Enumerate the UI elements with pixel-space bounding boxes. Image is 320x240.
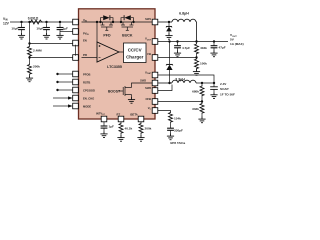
bottom pin boxes <box>101 116 144 122</box>
wire: CPGOOD stub <box>58 89 73 91</box>
svg-text:MODE: MODE <box>83 104 91 108</box>
svg-text:Charger: Charger <box>126 54 144 59</box>
svg-text:200k: 200k <box>33 64 40 68</box>
svg-text:1F TO 50F: 1F TO 50F <box>220 93 235 97</box>
svg-text:6.8µH: 6.8µH <box>179 12 189 16</box>
svg-text:BUCK: BUCK <box>122 34 133 38</box>
resistor R8 154k compensation <box>169 112 173 123</box>
svg-text:CC/CV: CC/CV <box>128 47 142 52</box>
resistor R9 40.2k RT <box>120 121 122 124</box>
wire: divider tap to PFI pin <box>30 57 73 59</box>
node SW1 <box>168 21 170 23</box>
transistor M2 BUCK switch (internal) <box>121 18 134 31</box>
svg-text:2.49M: 2.49M <box>33 49 42 53</box>
wire: PFOB stub <box>58 73 73 75</box>
wire: SW2 to inductor <box>158 82 172 84</box>
wire: SW2B to inductor node <box>158 85 172 91</box>
svg-text:1µF: 1µF <box>63 27 69 31</box>
node PFI tap <box>29 57 31 64</box>
left pin boxes <box>73 19 79 109</box>
wire: VIN to PFI divider <box>29 22 31 46</box>
resistor R5 100k feedback bottom <box>195 58 199 69</box>
wire: internal VIN rail to top switches <box>82 21 153 23</box>
svg-text:40.2k: 40.2k <box>125 127 133 131</box>
wire: SW1 to buck node <box>158 21 172 23</box>
svg-text:EN: EN <box>83 39 87 43</box>
wire: PFI pin to error amp input <box>82 57 98 59</box>
svg-text:154k: 154k <box>174 117 181 121</box>
svg-text:10µF: 10µF <box>36 27 43 31</box>
capacitor C5 47uF <box>211 42 218 52</box>
node: M1 source tap <box>112 21 114 23</box>
svg-text:SW2: SW2 <box>145 86 151 90</box>
wire: divider top to EN pin <box>30 43 73 45</box>
resistor R10 200k ISETA <box>140 121 142 124</box>
svg-text:47µF: 47µF <box>219 46 226 50</box>
wire: VIN input rail <box>10 21 73 23</box>
wire: VIN pin to error amp input <box>96 22 98 42</box>
wire: CFB pin to cap divider <box>158 101 202 103</box>
right pin boxes <box>152 19 158 113</box>
capacitor C4 4.7uF <box>174 42 181 52</box>
wire: VOUT rail <box>158 41 228 43</box>
wire: RSTB stub <box>58 81 73 83</box>
svg-text:200k: 200k <box>145 127 152 131</box>
wire: L2 to supercap rail <box>196 82 214 84</box>
transistor M3 boost switch (internal) <box>119 83 153 97</box>
ground (supercap) <box>210 92 217 98</box>
ground (catch diode) <box>165 33 172 39</box>
bottom pin labels inside IC <box>96 112 138 117</box>
node divider top <box>28 42 30 44</box>
svg-text:FB: FB <box>147 52 151 56</box>
capacitor C3 1uF <box>57 23 64 33</box>
capacitor C7 330pF compensation <box>170 123 172 125</box>
wire: PVIN pin feed <box>60 31 73 33</box>
svg-text:100k: 100k <box>200 62 207 66</box>
left pin labels inside IC <box>83 18 95 109</box>
capacitor C2 10uF <box>43 23 50 33</box>
svg-text:12V: 12V <box>3 21 10 25</box>
transistor M1 PFO ideal-diode FET (internal) <box>101 18 114 31</box>
svg-text:402k: 402k <box>200 46 207 50</box>
svg-text:10µF: 10µF <box>11 27 18 31</box>
resistor R4 402k feedback top <box>196 42 198 44</box>
ground (PFI divider) <box>26 76 33 82</box>
op-amp U1a error amplifier <box>97 42 119 62</box>
svg-text:3355 TA01a: 3355 TA01a <box>170 141 186 145</box>
resistor R3 200k <box>28 64 32 75</box>
wire: EN-PFI pin link <box>75 45 77 56</box>
resistor R6 680k cap divider top <box>201 83 203 85</box>
svg-text:PFD: PFD <box>103 34 111 38</box>
CC/CV Charger block <box>124 43 147 63</box>
wire: amp out to charger block <box>119 51 124 53</box>
node: M2 drain tap <box>120 21 122 23</box>
ground (cap divider) <box>198 117 205 123</box>
diode D1 catch diode <box>166 22 172 33</box>
svg-text:1µF: 1µF <box>109 125 115 129</box>
svg-text:680k: 680k <box>192 90 199 94</box>
supercap C6 <box>213 83 215 87</box>
node: M1 drain tap <box>99 21 101 23</box>
svg-text:SW1: SW1 <box>145 17 151 21</box>
diode: body diode of M2 <box>124 15 131 20</box>
svg-text:CPGOOD: CPGOOD <box>83 88 95 92</box>
IC U1 LTC3355 body <box>79 9 156 119</box>
capacitor C8 1uF INTVCC <box>101 122 108 132</box>
node junctions on rail <box>20 21 22 23</box>
node: M2 source tap <box>132 21 134 23</box>
svg-text:2.4V: 2.4V <box>220 82 227 86</box>
svg-text:ISETA: ISETA <box>130 113 138 117</box>
resistor R2 2.49M <box>28 46 32 57</box>
diode D2 boost rectifier (schottky) <box>166 42 173 84</box>
wire: L1 to VOUT rail <box>195 22 198 42</box>
svg-text:CFB: CFB <box>145 97 151 101</box>
ground (compensation) <box>167 134 174 140</box>
svg-text:330pF: 330pF <box>174 129 183 133</box>
svg-text:RSTB: RSTB <box>83 80 90 84</box>
wire: MODE input arrow <box>53 105 69 107</box>
ground (internal, boost source) <box>128 97 135 103</box>
diode: body diode of M1 <box>103 15 110 20</box>
svg-text:EN_CHG: EN_CHG <box>83 96 94 100</box>
wire: VC pin to compensation <box>158 111 171 112</box>
svg-text:1A (MAX): 1A (MAX) <box>230 42 244 46</box>
right pin labels inside IC <box>140 17 152 110</box>
svg-text:0.091Ω: 0.091Ω <box>28 16 39 20</box>
ground (feedback divider) <box>193 69 200 75</box>
svg-text:PFOB: PFOB <box>83 72 91 76</box>
resistor R7 332k cap divider bottom <box>200 103 204 114</box>
wire: FB pin to divider <box>158 57 197 59</box>
svg-text:332k: 332k <box>192 107 199 111</box>
node: amp feed junction <box>96 21 98 23</box>
svg-text:LTC3355: LTC3355 <box>107 65 122 69</box>
svg-text:SCAP: SCAP <box>220 87 229 91</box>
svg-text:4.7µF: 4.7µF <box>182 46 190 50</box>
svg-text:SW2: SW2 <box>140 78 146 82</box>
svg-text:PFI: PFI <box>83 53 87 57</box>
capacitor C1 10uF input <box>18 23 25 33</box>
wire: EN_CHG input arrow <box>53 97 69 99</box>
wire: VCAP pin to supercap <box>158 75 214 83</box>
